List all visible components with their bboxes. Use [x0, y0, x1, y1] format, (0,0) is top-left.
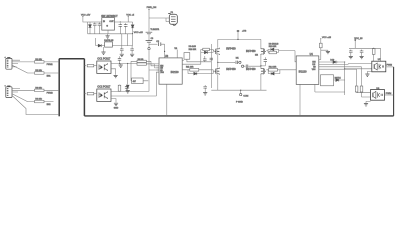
svg-text:IRFP450: IRFP450: [226, 48, 236, 51]
op-amp U3 gate driver IR2110: [159, 58, 182, 84]
wire Q1 drain to rail: [217, 39, 219, 47]
diode D3: [204, 51, 207, 54]
wire BX1 lower-left to gnd: [367, 71, 371, 73]
ground: [203, 93, 207, 95]
svg-text:LM78L15: LM78L15: [104, 40, 114, 42]
capacitor C6: [130, 48, 134, 52]
svg-text:VCC +15: VCC +15: [322, 37, 332, 39]
svg-text:C2: C2: [156, 41, 159, 43]
resistor R2: [35, 72, 45, 74]
svg-text:EN1: EN1: [47, 75, 52, 77]
wire regulator input rail: [88, 21, 102, 23]
transistor Q3 upper-right MOSFET: [261, 48, 266, 55]
svg-text:TLE4271: TLE4271: [150, 29, 160, 31]
wire: thick ground route top horizontal: [59, 58, 84, 60]
capacitor C17: [360, 50, 364, 54]
box aux: [321, 75, 334, 86]
connector J1: [5, 57, 12, 69]
svg-text:IR2110: IR2110: [171, 71, 179, 74]
wire J2 ground return diagonal: [12, 95, 59, 114]
wire VB column: [182, 60, 184, 62]
ground: [106, 36, 110, 38]
resistor R4: [35, 100, 45, 102]
wire risers from rail: [122, 34, 128, 46]
transistor Q1 upper-left MOSFET: [214, 48, 219, 55]
diode D1 input to 15V reg: [98, 44, 101, 47]
resistor R18: [360, 86, 363, 92]
wire rail to upper box: [380, 48, 382, 61]
svg-text:SW LM7805CT: SW LM7805CT: [101, 15, 118, 18]
svg-text:M2: M2: [255, 55, 259, 57]
capacitor C11: [210, 58, 213, 60]
wire: thick ground route right vertical: [83, 59, 85, 116]
diode D4: [194, 72, 197, 75]
wire BX1 right pin to bus: [386, 66, 394, 68]
wire Q2 drain up: [217, 62, 219, 67]
resistor R5: [84, 65, 86, 67]
ground: [349, 56, 353, 58]
wire cap to ground: [321, 50, 328, 51]
node +VS: [237, 32, 239, 39]
node COM terminal: [240, 90, 242, 93]
svg-text:VCC +5V: VCC +5V: [81, 14, 91, 16]
capacitor C4: [124, 23, 128, 27]
resistor R7: [137, 63, 146, 65]
ground stub U2: [103, 47, 105, 52]
ground: [120, 54, 124, 56]
wire J2 pin stubs: [12, 89, 59, 92]
wire top rail: [218, 38, 261, 40]
node +5 out: [127, 17, 129, 22]
svg-text:IRFP450: IRFP450: [226, 68, 236, 71]
diode D9: [271, 72, 274, 75]
wire J1 pin stubs: [12, 60, 59, 67]
svg-text:R1 10k: R1 10k: [35, 59, 41, 61]
resistor R17: [355, 86, 358, 92]
wire phase node left: [218, 61, 234, 63]
wire U4 right pins: [319, 62, 362, 69]
svg-text:M1: M1: [236, 58, 240, 60]
optocoupler OC1: [97, 61, 111, 73]
svg-text:PWM1: PWM1: [47, 64, 54, 66]
wire VIN column: [148, 35, 150, 48]
resistor R16: [372, 48, 375, 54]
svg-text:U3: U3: [165, 55, 169, 58]
optocoupler OC2: [97, 89, 111, 101]
resistor R9 vertical: [118, 85, 121, 91]
wire Q4 drain up: [260, 66, 262, 68]
svg-text:PWR_ON: PWR_ON: [147, 7, 157, 9]
wire right supply rail: [349, 47, 381, 49]
svg-text:PWM: PWM: [387, 65, 393, 67]
ground: [114, 103, 118, 105]
svg-text:+VS: +VS: [242, 30, 247, 32]
wire U3 top pin 2: [176, 50, 178, 58]
svg-text:BAT54: BAT54: [335, 77, 342, 80]
svg-text:PWM: PWM: [386, 93, 392, 95]
capacitor C1: [93, 23, 97, 27]
zener D7: [126, 85, 129, 88]
svg-text:P GND: P GND: [236, 102, 243, 104]
svg-text:VCC +15: VCC +15: [134, 32, 144, 34]
capacitor C5: [120, 48, 124, 52]
wire Q1 source to phase: [217, 55, 219, 62]
phase column left: [210, 44, 212, 88]
capacitor C16: [349, 50, 353, 54]
node M1 out: [239, 61, 241, 63]
wire: bottom ground bus: [84, 115, 393, 117]
diode D11 BAT54: [336, 79, 339, 82]
svg-text:R3 10k: R3 10k: [35, 87, 41, 89]
capacitor C3: [119, 23, 123, 27]
resistor R15: [320, 43, 323, 48]
svg-text:COM: COM: [243, 95, 248, 97]
capacitor C8: [119, 60, 121, 63]
wire bottom rail: [211, 89, 266, 91]
wire mid vertical: [345, 62, 372, 95]
node M2 out: [241, 65, 243, 67]
regulator U2 78L15: [105, 42, 113, 47]
bootstrap diode box D2: [184, 53, 190, 60]
capacitor C7 bootstrap: [149, 43, 157, 45]
svg-text:IRFP450: IRFP450: [246, 68, 256, 71]
buffer BX1 output stage upper: [372, 61, 386, 72]
wire OC2 lower out: [111, 72, 159, 96]
svg-text:GND: GND: [114, 107, 119, 109]
ground: [360, 56, 364, 58]
wire BX1 left pins: [348, 63, 372, 66]
svg-text:OC2 PC817: OC2 PC817: [97, 86, 111, 89]
LED D5 power indicator: [89, 25, 92, 28]
wire OC1 lower pin to ground: [111, 69, 116, 75]
wire from power node down: [148, 9, 150, 31]
svg-text:EN2: EN2: [47, 104, 52, 106]
wire BX2 gnd: [366, 101, 371, 103]
connector P1 DC jack: [168, 13, 177, 25]
battery B1 bars: [146, 32, 153, 42]
wire U4 VS down: [315, 84, 345, 92]
capacitor C13: [203, 85, 207, 89]
svg-text:U7: U7: [378, 59, 382, 61]
resistor R1: [35, 61, 45, 63]
zener D10: [333, 61, 336, 64]
svg-text:R10 10R: R10 10R: [189, 49, 197, 51]
ground: [114, 75, 118, 77]
svg-text:D3 4148: D3 4148: [189, 46, 196, 48]
wire: thick ground route left vertical: [58, 59, 60, 117]
wire regulator output: [114, 21, 132, 23]
svg-text:VCC +5: VCC +5: [126, 14, 135, 16]
svg-text:R13 10R: R13 10R: [269, 46, 277, 48]
node VCC +15: [132, 34, 134, 46]
wire 15V output: [112, 46, 132, 48]
transistor Q4 lower-right MOSFET: [261, 68, 266, 75]
junction: [120, 21, 121, 22]
wire to jack: [149, 18, 169, 22]
capacitor C9: [126, 85, 128, 92]
wire: right edge vertical bus: [393, 67, 395, 116]
svg-text:IRFP450: IRFP450: [246, 50, 256, 53]
ground below junction: [120, 63, 122, 64]
junction: [164, 51, 165, 52]
op-amp U4 gate driver IR2110: [296, 56, 319, 85]
wire to U4 HO: [279, 51, 298, 62]
capacitor C2: [98, 23, 102, 27]
ground: [130, 54, 134, 56]
svg-text:P1: P1: [171, 12, 174, 14]
wire U4 bottom to bus: [299, 84, 301, 116]
resistor R3: [35, 89, 45, 91]
svg-text:PWM2: PWM2: [47, 93, 54, 95]
wire OC2 out upper: [111, 70, 159, 91]
svg-text:OC1 PC817: OC1 PC817: [97, 58, 111, 61]
capacitor C12: [233, 61, 238, 63]
wire Q3 source to phase: [260, 55, 262, 66]
wire branch down: [127, 63, 129, 84]
wire Q3 drain to rail: [260, 39, 262, 47]
wire BX2 right pin to bus: [385, 94, 394, 96]
wire J1 EN1 diagonal: [12, 65, 59, 73]
ground rail under regulator: [88, 22, 133, 34]
wire OC2 gnd pin: [111, 99, 116, 103]
wire OC1 out upper: [111, 62, 159, 65]
svg-text:IR2110: IR2110: [299, 70, 307, 73]
capacitor C14: [261, 57, 265, 66]
junction circle: [148, 47, 150, 49]
zener D6: [131, 25, 134, 28]
wire J2 EN2 diagonal: [12, 94, 54, 102]
transistor Q2 lower-left MOSFET: [214, 68, 219, 75]
wire Q4 source down: [260, 75, 262, 90]
connector J2: [5, 85, 12, 97]
resistor R8: [84, 93, 86, 95]
regulator U1 LM7805: [102, 18, 115, 31]
wire U3 bottom COM to bus: [166, 84, 168, 116]
ground: [326, 51, 330, 53]
wire Q2 source to bottom rail: [217, 75, 219, 90]
wire U3 HO to gate network: [182, 63, 201, 65]
svg-text:R4 10k: R4 10k: [35, 99, 41, 101]
buffer BX2 output stage lower: [371, 90, 385, 101]
resistor R10 gate upper-left: [203, 48, 210, 50]
wire U3 left pins: [156, 66, 159, 72]
svg-text:R2 10k: R2 10k: [35, 70, 41, 72]
svg-text:C3: C3: [151, 38, 154, 40]
capacitor C10 bootstrap: [203, 58, 207, 62]
resistor block RN1: [132, 78, 143, 84]
resistor R13 10R: [269, 51, 276, 54]
